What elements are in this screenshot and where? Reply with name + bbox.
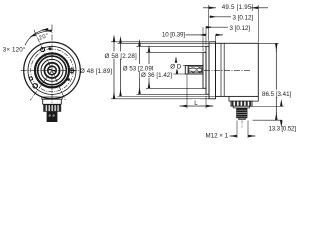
svg-text:M12 × 1: M12 × 1 (206, 132, 229, 139)
clamping ring inner (38, 56, 67, 85)
mounting hole 3 (right) (70, 69, 74, 73)
svg-text:Ø 36 [1.42]: Ø 36 [1.42] (141, 72, 172, 79)
L dim (186, 75, 188, 109)
front view connector knurl (44, 105, 61, 112)
small hole bottom-left (29, 77, 32, 80)
side connector step band (233, 106, 249, 108)
body Ø53 (216, 43, 259, 96)
svg-text:10 [0.39]: 10 [0.39] (162, 32, 185, 39)
radial axis 114deg (34, 30, 66, 102)
mounting hole 1 (top-left) (41, 48, 45, 52)
Ø48 dim line (139, 46, 141, 94)
front connector shoulder (42, 97, 62, 99)
front view connector neck (42, 99, 62, 104)
side connector base step (229, 96, 258, 101)
Ø36 ext lines (146, 51, 203, 53)
svg-text:L: L (194, 100, 198, 107)
side connector M12 thread (236, 108, 247, 118)
svg-text:13.3 [0.52]: 13.3 [0.52] (269, 125, 297, 132)
20 deg dimension arc (36, 31, 52, 35)
connector pins (49, 114, 51, 116)
3 dim upper (205, 26, 207, 45)
shaft knurl band (188, 67, 202, 73)
Ø48 ext lines (137, 45, 207, 47)
3 dim lower (202, 27, 204, 51)
shaft screw circle r4.3 (48, 66, 57, 75)
front view boss circle Ø48 (28, 46, 76, 94)
boss Ø36 (203, 52, 206, 88)
ØD dim arrows (175, 58, 177, 64)
svg-text:86.5 [3.41]: 86.5 [3.41] (262, 91, 292, 98)
mounting hole 2 (bottom-left) (33, 84, 38, 89)
screw slot (49, 69, 56, 71)
svg-text:3× 120°: 3× 120° (3, 47, 26, 54)
13.3 dim (251, 105, 284, 107)
svg-text:Ø D: Ø D (170, 64, 182, 71)
index pin dot top (48, 47, 51, 50)
radial axis 234deg (30, 70, 52, 100)
svg-text:49.5 [1.95]: 49.5 [1.95] (222, 4, 254, 11)
hub ring r7.6 (44, 63, 59, 78)
vertical centerline front view (51, 25, 53, 104)
connector centerline stub (241, 120, 243, 127)
86.5 dim (258, 42, 278, 44)
body front internal lines (220, 43, 222, 96)
side connector knurl (232, 101, 252, 106)
side view centerline (204, 69, 251, 71)
svg-text:3 [0.12]: 3 [0.12] (230, 25, 251, 32)
side connector tip (239, 118, 245, 119)
index pin dot bottom-right (67, 78, 70, 81)
svg-text:3 [0.12]: 3 [0.12] (233, 14, 254, 21)
Ø58 ext lines (111, 41, 209, 43)
shaft knurl pattern (188, 67, 202, 73)
horizontal centerline front view (21, 69, 79, 71)
Ø53 dim line (120, 43, 122, 96)
49.5 dim (208, 5, 210, 41)
inner ring r11 (41, 59, 63, 81)
clamping ring circle Ø36 outer (35, 53, 69, 87)
M12 dim (236, 121, 238, 139)
Ø36 dim line (148, 52, 150, 88)
shaft end cap line (187, 66, 189, 75)
boss Ø48 (206, 46, 209, 94)
Ø58 dim line (113, 42, 115, 99)
leader for 3x120 (25, 29, 49, 45)
Ø53 ext lines (118, 42, 216, 44)
ØD ext lines (172, 65, 186, 67)
bolt hole circle dash-dot Ø42 (31, 49, 74, 92)
front view outer flange circle Ø58 (24, 42, 81, 99)
flange plate Ø58 (209, 42, 216, 99)
svg-text:Ø 48 [1.89]: Ø 48 [1.89] (80, 68, 112, 75)
front view connector body M12 (47, 112, 58, 122)
shaft (185, 66, 203, 75)
10 dim (186, 34, 199, 36)
svg-text:Ø 58 [2.28]: Ø 58 [2.28] (105, 53, 137, 60)
